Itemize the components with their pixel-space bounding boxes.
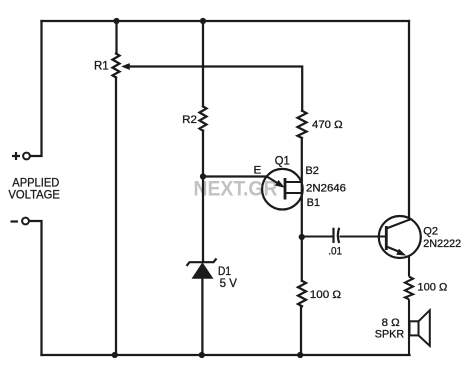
- resistor 100 ohm right: [405, 277, 413, 300]
- op-amp: none; UJT transistor Q1 circle: [262, 169, 303, 210]
- transistor Q2 emitter line: [386, 247, 399, 252]
- wire rail node to 100 ohm left: [301, 237, 303, 281]
- transistor Q1 B2 lead: [285, 181, 302, 183]
- node E junction: [200, 173, 206, 179]
- svg-text:5 V: 5 V: [220, 278, 238, 290]
- terminal + circle: [23, 153, 30, 160]
- resistor 470 ohm: [298, 111, 307, 138]
- node bottom D1 junction: [199, 352, 205, 358]
- wire R2 top lead: [202, 21, 204, 106]
- wire zener top lead: [202, 177, 204, 263]
- svg-text:B1: B1: [307, 197, 320, 209]
- terminal - circle: [22, 218, 29, 225]
- wire bottom rail: [42, 354, 410, 356]
- svg-text:Q1: Q1: [275, 156, 290, 168]
- wire left rail lower (- terminal to bottom rail): [29, 221, 42, 355]
- svg-text:2N2646: 2N2646: [306, 182, 346, 194]
- speaker horn: [419, 310, 430, 346]
- wire R2 bottom lead to node: [202, 131, 204, 177]
- transistor Q1 emitter line: [267, 177, 278, 184]
- resistor 100 ohm left: [298, 281, 306, 306]
- wire left rail upper (+ terminal to top rail): [30, 21, 42, 156]
- resistor R2: [200, 106, 207, 130]
- minus sign: [11, 220, 19, 222]
- svg-text:2N2222: 2N2222: [423, 238, 461, 250]
- node bottom 100 ohm junction: [297, 352, 303, 358]
- svg-text:B2: B2: [305, 165, 319, 177]
- svg-text:D1: D1: [218, 266, 231, 278]
- wire E node to UJT emitter: [203, 175, 267, 177]
- plus sign: [12, 152, 20, 160]
- svg-text:R2: R2: [182, 114, 197, 126]
- svg-text:100 Ω: 100 Ω: [417, 281, 447, 293]
- wire R1 top lead: [115, 21, 117, 54]
- node bottom R1 junction: [112, 352, 118, 358]
- zener diode D1 triangle: [192, 262, 214, 278]
- wire Q2 emitter to 100 ohm right: [408, 256, 410, 277]
- svg-text:.01: .01: [328, 245, 342, 257]
- potentiometer arrow R1 wiper: [121, 63, 130, 70]
- wire R1 bottom lead: [115, 78, 117, 356]
- svg-text:100 Ω: 100 Ω: [310, 289, 341, 301]
- svg-text:Q2: Q2: [423, 225, 438, 237]
- node top R2 junction: [200, 18, 206, 24]
- wire top rail: [42, 20, 410, 22]
- transistor Q2 circle: [379, 216, 421, 258]
- svg-text:470 Ω: 470 Ω: [312, 119, 343, 131]
- svg-text:R1: R1: [94, 59, 109, 72]
- capacitor .01 left plate: [332, 228, 334, 243]
- wire right rail (top border to Q2 collector): [408, 21, 410, 220]
- svg-text:8 Ω: 8 Ω: [382, 317, 400, 329]
- node capacitor junction: [299, 234, 305, 240]
- wire 470 ohm to UJT bases rail: [301, 138, 303, 237]
- speaker driver rectangle: [410, 321, 419, 335]
- transistor Q2 collector line: [386, 220, 409, 229]
- zener diode D1 bar: [187, 259, 217, 266]
- transistor Q1 base bar: [284, 178, 287, 200]
- wire 100 ohm right to speaker: [408, 299, 410, 355]
- svg-text:VOLTAGE: VOLTAGE: [8, 188, 60, 202]
- transistor Q1 B1 lead: [285, 192, 302, 194]
- svg-text:SPKR: SPKR: [375, 329, 404, 341]
- svg-text:E: E: [254, 165, 262, 177]
- transistor Q1 emitter arrowhead: [275, 180, 285, 188]
- resistor R1: [113, 54, 120, 78]
- wire capacitor to Q2 base: [340, 235, 387, 237]
- node top R1 junction: [113, 18, 119, 24]
- wire 100 ohm left bottom lead: [300, 306, 302, 355]
- transistor Q2 base bar: [385, 226, 388, 250]
- capacitor .01 right plate: [338, 228, 339, 243]
- wire node to capacitor: [302, 235, 334, 237]
- transistor Q2 emitter arrowhead: [396, 249, 406, 256]
- wire zener bottom lead: [201, 278, 203, 355]
- wire R1 wiper to 470 ohm column: [129, 67, 302, 111]
